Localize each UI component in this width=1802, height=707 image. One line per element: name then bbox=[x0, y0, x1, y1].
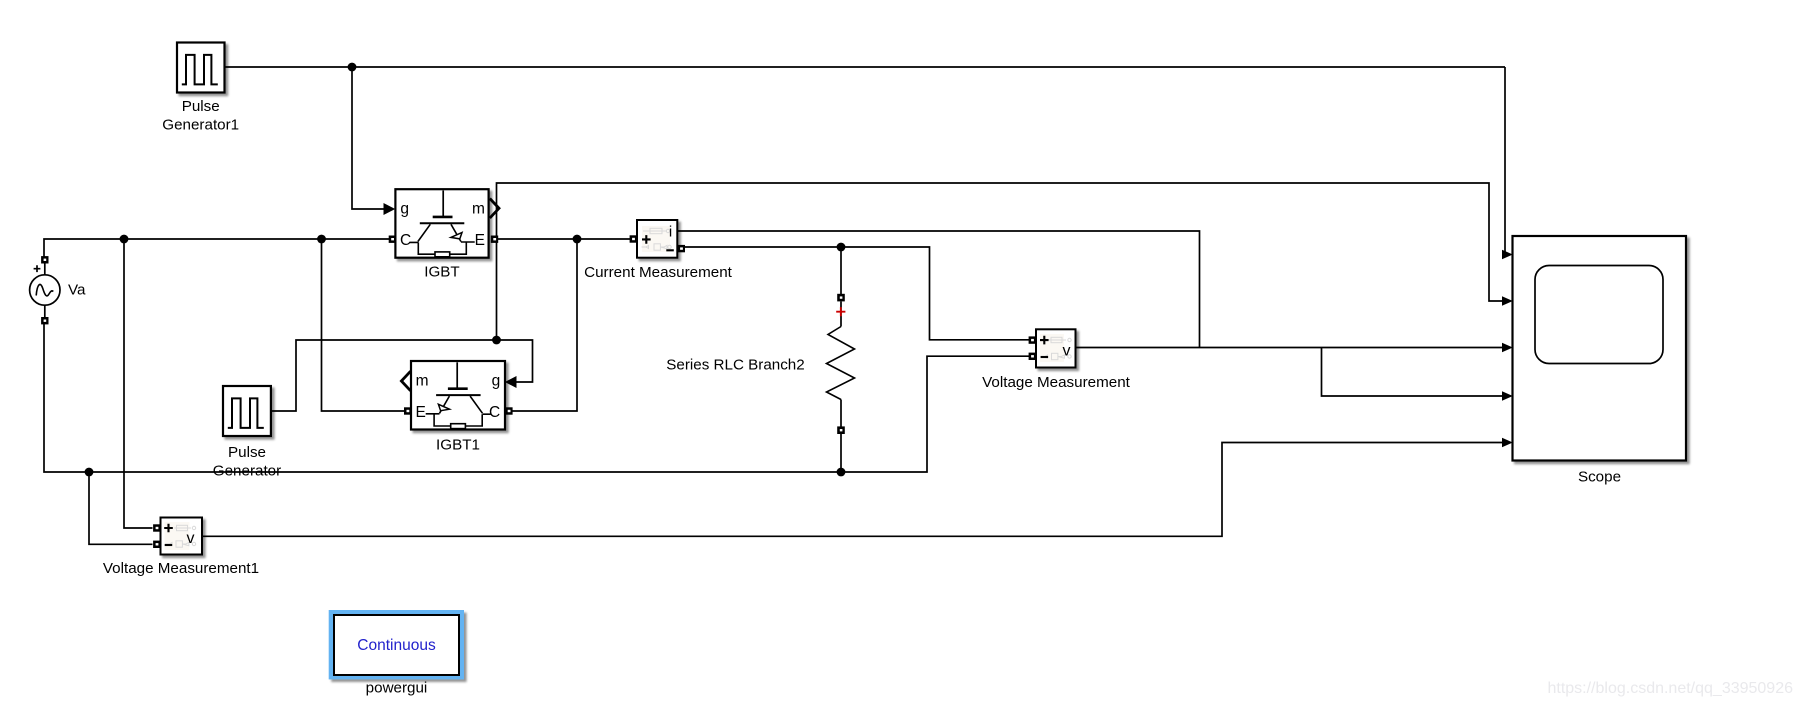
pin - port bottom bbox=[41, 317, 48, 324]
pin m output chevron (left) bbox=[401, 371, 410, 391]
wire Va plus to IGBT C (y=239) bbox=[44, 239, 389, 257]
svg-text:v: v bbox=[1063, 343, 1071, 360]
wire Va minus bottom net (y=472) to Voltage Measurement minus bbox=[44, 321, 1029, 472]
svg-text:m: m bbox=[472, 201, 485, 218]
pin - port bbox=[1029, 353, 1036, 360]
voltage sensor VM (Voltage Measurement) bbox=[1029, 329, 1076, 367]
svg-text:Continuous: Continuous bbox=[357, 637, 436, 654]
pin + port bbox=[153, 524, 160, 531]
pin - port bbox=[153, 541, 160, 548]
pin + port bbox=[630, 235, 637, 242]
arrow into scope input 5 bbox=[1502, 438, 1513, 448]
svg-text:m: m bbox=[416, 372, 429, 389]
pulse generator PG1 (Pulse Generator1) bbox=[177, 43, 225, 93]
node junction bottom net / VM1 minus bbox=[85, 468, 94, 477]
pin C port bbox=[505, 407, 512, 414]
svg-text:Voltage Measurement: Voltage Measurement bbox=[982, 374, 1131, 391]
arrow into scope input 1 bbox=[1502, 250, 1513, 260]
wire scope input1 drop (x=1505) bbox=[1502, 67, 1505, 255]
pulse generator PG2 (Pulse Generator) bbox=[223, 386, 271, 436]
wire IGBT E to Current Measurement (y=239) bbox=[498, 238, 630, 240]
pin E port bbox=[404, 407, 411, 414]
node junction bottom net / RLC bottom bbox=[837, 468, 846, 477]
svg-text:g: g bbox=[400, 201, 409, 218]
pin - port bbox=[678, 245, 685, 252]
wire bottom net branch to Voltage Measurement1 minus (x=89) bbox=[89, 472, 153, 544]
pin m output chevron bbox=[490, 199, 499, 219]
label plus sign bbox=[34, 265, 41, 272]
pin + port top bbox=[41, 256, 48, 263]
wire Current Measurement i to scope (y=231) bbox=[678, 231, 1200, 348]
voltage sensor VM1 (Voltage Measurement1) bbox=[153, 518, 202, 555]
arrow into IGBT g input bbox=[384, 203, 396, 215]
pin + port top bbox=[837, 294, 845, 302]
wire Series RLC Branch2 bottom to node (x=841) bbox=[840, 434, 842, 472]
svg-text:IGBT: IGBT bbox=[424, 264, 459, 281]
svg-text:Pulse: Pulse bbox=[182, 98, 220, 115]
wire branch to Voltage Measurement1 plus (x=124) bbox=[124, 239, 153, 528]
svg-text:E: E bbox=[475, 232, 485, 249]
resistor R1 (Series RLC Branch2) bbox=[827, 294, 855, 434]
wire IGBT1 C up to E net (x=577) bbox=[513, 239, 578, 411]
wire to Series RLC Branch2 top bbox=[840, 247, 842, 294]
svg-text:Series RLC Branch2: Series RLC Branch2 bbox=[666, 357, 804, 374]
wire Voltage Measurement v / i to scope input3 (y=347.5) bbox=[1076, 347, 1502, 349]
arrow into IGBT1 g input bbox=[505, 376, 517, 388]
svg-text:C: C bbox=[489, 404, 500, 421]
wire bottom pulse net to scope input2 (y=183) bbox=[497, 183, 1503, 340]
arrow into scope input 2 bbox=[1502, 296, 1513, 306]
pin port bottom bbox=[837, 426, 845, 434]
pin C port bbox=[389, 236, 396, 243]
svg-text:Voltage Measurement1: Voltage Measurement1 bbox=[103, 560, 259, 577]
wire branch to IGBT1 E (x=321.5) bbox=[322, 239, 405, 411]
node junction Va net at x=124 bbox=[120, 235, 129, 244]
svg-text:Va: Va bbox=[68, 282, 86, 299]
svg-text:Generator1: Generator1 bbox=[162, 117, 239, 134]
pin E port bbox=[491, 236, 498, 243]
transistor U1 IGBT block bbox=[389, 189, 499, 258]
svg-text:v: v bbox=[187, 530, 195, 547]
wire Pulse Generator1 output to scope feed (y=67) bbox=[225, 66, 1506, 68]
node junction CM minus / RLC top bbox=[837, 243, 846, 252]
scope block bbox=[1513, 236, 1687, 461]
source Va (AC voltage source) bbox=[30, 256, 60, 324]
wire Pulse Generator to IGBT1 g (y=340) bbox=[271, 340, 533, 411]
current sensor CM1 (Current Measurement) bbox=[630, 220, 685, 258]
wire Current Measurement minus to Voltage Measurement plus bbox=[685, 247, 1029, 340]
node junction Pulse Generator1 line bbox=[348, 63, 357, 72]
arrow into scope input 4 bbox=[1502, 391, 1513, 401]
arrow into scope input 3 bbox=[1502, 343, 1513, 353]
node junction pulse/scope net bbox=[492, 336, 501, 345]
node junction E net at x=577 bbox=[573, 235, 582, 244]
svg-text:i: i bbox=[669, 224, 672, 241]
wire v branch to scope input4 bbox=[1322, 348, 1503, 397]
svg-text:IGBT1: IGBT1 bbox=[436, 437, 480, 454]
svg-text:g: g bbox=[492, 372, 501, 389]
svg-text:C: C bbox=[400, 232, 411, 249]
svg-text:https://blog.csdn.net/qq_33950: https://blog.csdn.net/qq_33950926 bbox=[1547, 680, 1793, 697]
transistor U2 IGBT1 block (mirrored) bbox=[401, 361, 512, 430]
wire Series RLC Branch2 internal stubs bbox=[840, 302, 842, 427]
svg-text:Current Measurement: Current Measurement bbox=[584, 264, 732, 281]
wire Pulse Generator1 branch to IGBT g (x=352) bbox=[352, 67, 384, 209]
powergui block bbox=[329, 610, 464, 679]
pin + port bbox=[1029, 336, 1036, 343]
svg-text:Generator: Generator bbox=[213, 463, 281, 480]
node junction Va net at x=321.5 bbox=[317, 235, 326, 244]
label red plus bbox=[836, 307, 845, 316]
svg-text:Pulse: Pulse bbox=[228, 444, 266, 461]
svg-text:powergui: powergui bbox=[366, 680, 428, 697]
svg-text:Scope: Scope bbox=[1578, 469, 1621, 486]
wire Voltage Measurement1 v to scope input5 (y=536) bbox=[203, 443, 1503, 537]
svg-text:E: E bbox=[416, 404, 426, 421]
